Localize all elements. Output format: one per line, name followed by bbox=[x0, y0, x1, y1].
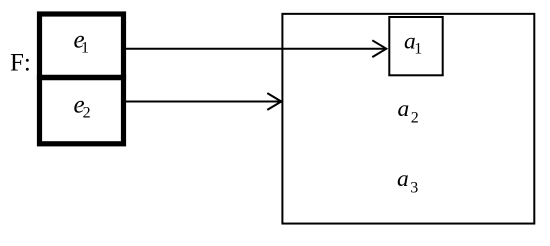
arrow e1 to a1 bbox=[126, 40, 386, 57]
label a3 bbox=[397, 166, 418, 196]
box a1 bbox=[389, 17, 442, 75]
svg-text:a: a bbox=[397, 166, 409, 192]
svg-text:2: 2 bbox=[411, 109, 419, 126]
box F (two-cell stack) bbox=[40, 14, 124, 144]
svg-text:1: 1 bbox=[81, 39, 89, 56]
label e2 bbox=[74, 92, 91, 122]
label a2 bbox=[398, 96, 419, 126]
arrow e2 to box A bbox=[126, 93, 281, 110]
svg-text:1: 1 bbox=[414, 40, 422, 57]
label a1 bbox=[404, 29, 422, 58]
divider between e1 and e2 cells bbox=[37, 75, 126, 80]
svg-text:3: 3 bbox=[410, 179, 418, 196]
svg-text:a: a bbox=[398, 96, 410, 122]
svg-text:F:: F: bbox=[10, 50, 31, 77]
svg-text:2: 2 bbox=[83, 105, 91, 122]
label e1 bbox=[74, 27, 90, 57]
big box A bbox=[282, 14, 534, 224]
